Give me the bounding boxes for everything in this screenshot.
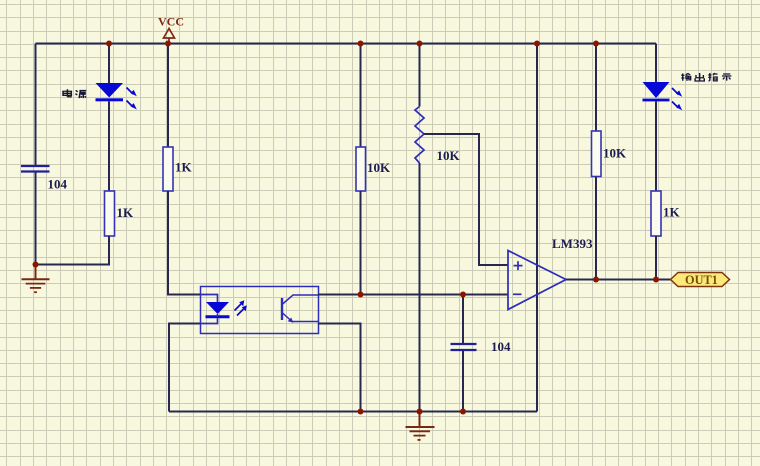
net label OUT1 flag: [671, 273, 730, 287]
wire crossing column (top rail to bottom rail): [536, 44, 538, 412]
junction (596,43.5): [593, 41, 599, 47]
wire potentiometer tap to plus input: [424, 134, 508, 265]
wire bottom rail: [169, 411, 537, 413]
optocoupler light arrows: [235, 300, 247, 315]
wire opto cathode to bottom rail: [169, 324, 201, 412]
junction (109,43.5): [106, 41, 112, 47]
svg-text:1K: 1K: [175, 160, 193, 175]
wire right LED to resistor: [655, 101, 657, 191]
wire LED1 to resistor: [108, 101, 110, 191]
svg-text:104: 104: [48, 177, 68, 192]
wire 10K left column top: [360, 44, 362, 148]
junction (463,294.5): [460, 292, 466, 298]
wire opto collector to minus input: [318, 294, 508, 296]
wire ground row: [36, 264, 110, 266]
op-amp U1 LM393: [508, 251, 566, 310]
wire resistor to ground row: [36, 236, 110, 265]
optocoupler box: [201, 287, 319, 334]
LED D2 output indicator: [643, 82, 670, 101]
power symbol VCC: [164, 29, 175, 44]
capacitor 104 (left): [21, 166, 50, 172]
wire VCC column top: [167, 44, 169, 148]
wire potentiometer column bottom: [419, 163, 421, 412]
svg-text:1K: 1K: [663, 205, 681, 220]
svg-text:10K: 10K: [603, 146, 627, 161]
junction (360.5,43.5): [358, 41, 364, 47]
wire right LED column top: [655, 44, 657, 83]
svg-text:OUT1: OUT1: [685, 273, 718, 287]
resistor 10K (right): [592, 131, 602, 177]
wire potentiometer column top: [419, 44, 421, 107]
wire opto emitter to bottom rail: [318, 324, 361, 412]
label 电源 (power): [63, 89, 86, 98]
junction (360.5,294.5): [358, 292, 364, 298]
wire left column lower: [35, 173, 37, 265]
wire LED1 column top: [108, 44, 110, 84]
junction (360.5,411.5): [358, 409, 364, 415]
wire 1K right column bottom: [655, 236, 657, 280]
wire VCC top rail: [36, 43, 657, 45]
svg-text:VCC: VCC: [158, 15, 184, 29]
wire op-amp output: [566, 279, 671, 281]
junction (537,43.5): [534, 41, 540, 47]
ground (bottom middle): [406, 412, 435, 440]
LED D1 power indicator: [96, 83, 124, 101]
wire VCC column to opto anode: [168, 191, 201, 295]
optocoupler LED: [201, 295, 230, 324]
junction (463,411.5): [460, 409, 466, 415]
wire 10K right column bottom: [595, 177, 597, 280]
junction (168,43.5): [165, 41, 171, 47]
svg-text:104: 104: [491, 339, 511, 354]
svg-text:1K: 1K: [117, 205, 135, 220]
wire 10K right column top: [595, 44, 597, 132]
wire capacitor column top: [462, 295, 464, 344]
capacitor 104 (bottom): [451, 344, 477, 350]
wire 10K left bottom: [360, 191, 362, 295]
optocoupler phototransistor: [282, 295, 318, 323]
resistor 1K (LED1 column): [105, 191, 115, 236]
wire capacitor column bottom: [462, 351, 464, 412]
svg-text:10K: 10K: [367, 160, 391, 175]
potentiometer 10K zigzag: [415, 107, 424, 164]
resistor 10K (left): [356, 147, 366, 191]
junction (596,279.5): [593, 277, 599, 283]
resistor 1K (right): [651, 191, 661, 236]
junction (35.5,264.5): [33, 262, 39, 268]
ground (left): [22, 265, 50, 293]
wire left column upper: [35, 44, 37, 166]
junction (419.5,43.5): [417, 41, 423, 47]
svg-text:10K: 10K: [437, 148, 461, 163]
label 输出指示 (output indicator): [681, 73, 731, 81]
svg-text:LM393: LM393: [552, 236, 593, 251]
junction (656,279.5): [653, 277, 659, 283]
junction (419.5,411.5): [417, 409, 423, 415]
resistor 1K (VCC column): [163, 147, 173, 191]
